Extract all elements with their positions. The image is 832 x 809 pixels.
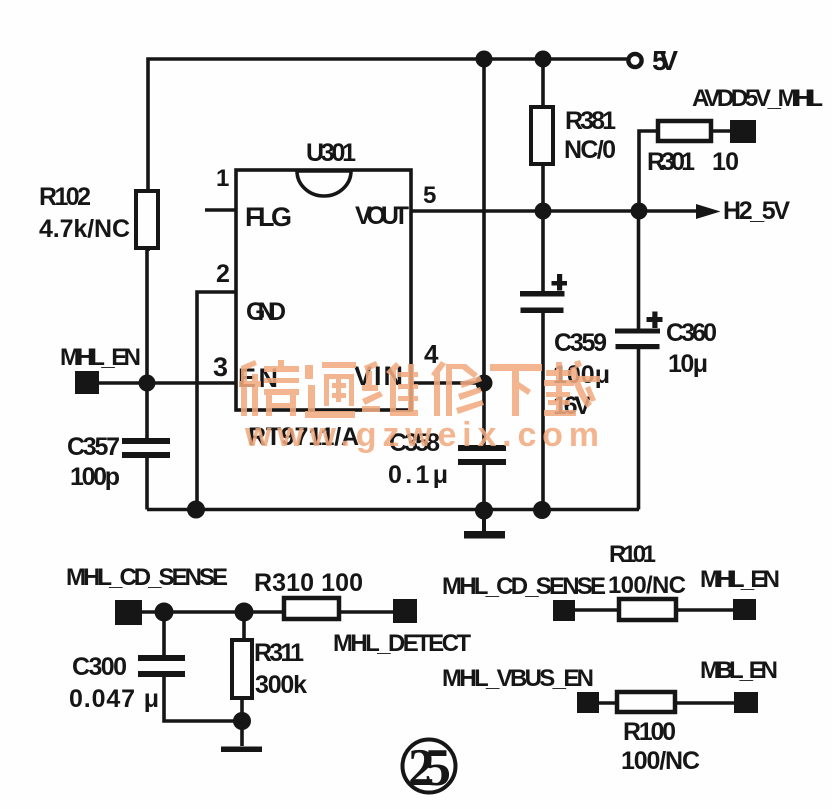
- char xiu: [431, 361, 484, 416]
- node junction top VIN column: [476, 51, 493, 68]
- wire MHL_EN to pin3 EN: [99, 381, 236, 385]
- svg-text:VOUT: VOUT: [355, 202, 409, 230]
- resistor R102: [136, 191, 158, 248]
- svg-text:MHL_CD_SENSE: MHL_CD_SENSE: [66, 564, 228, 591]
- wire MHL_CD_SENSE node row: [142, 610, 285, 614]
- svg-text:10μ: 10μ: [668, 350, 708, 378]
- page number 25 circled: [403, 739, 456, 797]
- char jing: [239, 360, 299, 416]
- node junction MHL_EN: [139, 375, 156, 392]
- wire C357 bottom to gnd rail corner: [145, 458, 149, 510]
- svg-text:5: 5: [423, 182, 436, 209]
- pad R100 right MBL_EN: [734, 692, 758, 713]
- node junction pin4 VIN: [476, 375, 493, 392]
- node junction gnd rail pin2: [187, 501, 205, 519]
- svg-text:100/NC: 100/NC: [621, 747, 700, 775]
- svg-text:100p: 100p: [70, 463, 120, 491]
- wire C360 bottom lead to ground rail: [637, 348, 641, 510]
- svg-text:www.gzweix.com: www.gzweix.com: [244, 416, 599, 454]
- wire R100 right lead: [675, 701, 735, 705]
- char zai: [544, 360, 600, 416]
- svg-text:GND: GND: [246, 298, 286, 326]
- resistor R381: [531, 107, 553, 164]
- capacitor C360 polarized: [615, 312, 663, 350]
- resistor R311: [232, 640, 252, 698]
- node junction MHL_CD_SENSE: [155, 603, 174, 622]
- svg-text:MHL_DETECT: MHL_DETECT: [333, 630, 471, 657]
- svg-text:C359: C359: [554, 329, 607, 357]
- wire R381 bottom lead to VOUT rail: [541, 163, 545, 211]
- pad R101 left: [553, 600, 575, 621]
- pad MHL_EN: [75, 371, 99, 394]
- wire C359 bottom lead: [541, 312, 545, 510]
- node junction R311 top: [235, 603, 254, 622]
- char wei: [362, 361, 418, 416]
- H2_5V arrow: [696, 204, 721, 219]
- svg-text:R381: R381: [565, 107, 616, 135]
- capacitor C357: [122, 438, 170, 458]
- svg-text:10: 10: [712, 148, 739, 176]
- wire R311 bottom lead: [240, 697, 244, 746]
- pad MHL_CD_SENSE: [115, 600, 142, 625]
- svg-text:C357: C357: [67, 433, 120, 461]
- wire top rail 5V: [148, 59, 628, 251]
- wire R310 right lead: [339, 610, 394, 614]
- node junction VOUT R381: [535, 203, 552, 220]
- svg-text:R100: R100: [623, 718, 676, 746]
- svg-text:25: 25: [408, 739, 451, 797]
- wire R100 left lead: [598, 701, 618, 705]
- resistor R100: [617, 692, 675, 712]
- node 5V terminal circle: [628, 54, 641, 67]
- svg-text:R311: R311: [254, 639, 304, 667]
- capacitor C300: [138, 655, 185, 677]
- svg-text:4.7k/NC: 4.7k/NC: [39, 215, 130, 243]
- svg-text:100/NC: 100/NC: [608, 572, 686, 599]
- char xia: [490, 364, 542, 416]
- wire pin2 GND stub and vertical: [197, 292, 237, 510]
- wire pin4 VIN stub: [411, 381, 484, 385]
- ground R311: [221, 747, 262, 753]
- pad R100 left: [577, 692, 599, 713]
- char tong: [305, 362, 356, 418]
- svg-text:MHL_CD_SENSE: MHL_CD_SENSE: [442, 573, 606, 600]
- wire R101 left lead: [574, 608, 620, 612]
- svg-text:AVDD5V_MHL: AVDD5V_MHL: [692, 85, 823, 112]
- svg-text:MBL_EN: MBL_EN: [700, 657, 778, 684]
- capacitor C358: [458, 445, 506, 465]
- watermark chinese characters: [239, 360, 600, 454]
- wire R301 right lead: [711, 129, 731, 133]
- pad MHL_DETECT: [393, 599, 417, 623]
- svg-text:U301: U301: [306, 139, 356, 167]
- wire ground rail: [147, 508, 639, 512]
- svg-text:0.1μ: 0.1μ: [388, 461, 448, 489]
- wire R102 lower to C357 top: [145, 245, 149, 438]
- svg-text:5V: 5V: [652, 45, 678, 76]
- svg-text:MHL_VBUS_EN: MHL_VBUS_EN: [442, 665, 594, 692]
- svg-text:NC/0: NC/0: [564, 136, 616, 164]
- wire R101 right lead: [676, 608, 734, 612]
- wire C300 bottom lead and elbow: [164, 677, 242, 721]
- svg-text:3: 3: [213, 352, 228, 382]
- svg-text:R102: R102: [39, 183, 91, 211]
- capacitor C359 polarized: [520, 274, 567, 313]
- svg-text:R101: R101: [609, 541, 656, 568]
- resistor R310: [284, 598, 339, 619]
- svg-text:H2_5V: H2_5V: [723, 197, 790, 225]
- wire pin1 FLG stub: [205, 208, 236, 212]
- wire C358 bottom to ground rail: [482, 463, 486, 511]
- svg-text:C360: C360: [666, 319, 717, 347]
- svg-text:C300: C300: [72, 653, 127, 681]
- wire C360 top lead: [637, 211, 641, 330]
- node junction R311 bottom: [233, 712, 251, 730]
- svg-text:2: 2: [216, 260, 230, 288]
- ground main rail: [464, 511, 505, 539]
- node junction gnd rail C359: [533, 501, 551, 519]
- node junction top R381: [535, 51, 552, 68]
- pad R101 right MHL_EN: [733, 599, 756, 620]
- pad AVDD5V_MHL: [730, 120, 756, 143]
- svg-text:FLG: FLG: [245, 202, 292, 232]
- svg-text:0.047 μ: 0.047 μ: [69, 685, 159, 713]
- op-amp U1 : IC U301 body outline: [236, 170, 411, 410]
- svg-text:R310 100: R310 100: [254, 569, 363, 597]
- svg-text:1: 1: [216, 165, 229, 192]
- wire R381 top lead: [541, 59, 545, 108]
- svg-text:MHL_EN: MHL_EN: [60, 344, 141, 371]
- node junction gnd rail C358: [475, 502, 493, 520]
- svg-text:300k: 300k: [255, 671, 307, 699]
- svg-text:R301: R301: [647, 148, 695, 176]
- svg-text:MHL_EN: MHL_EN: [700, 566, 780, 593]
- node junction H2_5V: [631, 203, 648, 220]
- svg-text:4: 4: [424, 339, 439, 369]
- wire VOUT pin5 to H2_5V: [411, 209, 698, 213]
- wire VIN column x484 top to C358: [482, 59, 486, 446]
- resistor R301: [658, 121, 711, 141]
- wire R311 top lead: [242, 612, 246, 641]
- resistor R101: [619, 599, 676, 620]
- wire C359 top lead: [541, 211, 545, 292]
- wire C300 top lead: [162, 612, 166, 656]
- wire R301 left lead down to H2 node: [639, 131, 658, 211]
